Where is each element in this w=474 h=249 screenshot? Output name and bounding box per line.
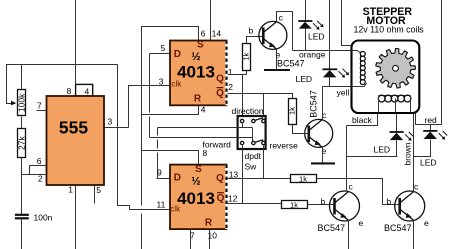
- wire: rail to 100k top: [21, 65, 23, 90]
- wire: FF2 pin 7 to bottom: [190, 230, 192, 249]
- wire: Q2 emitter to ground: [322, 148, 324, 163]
- wire: Q1 emitter to ground: [276, 50, 278, 70]
- LED 4: [414, 125, 448, 168]
- switch internal crossover: [242, 124, 244, 128]
- transistor Q4 BC547: [384, 182, 429, 234]
- svg-text:BC547: BC547: [318, 223, 346, 233]
- svg-text:S: S: [195, 164, 202, 175]
- wire: +V down to 555 pins 8/4: [75, 0, 77, 85]
- svg-text:27k: 27k: [16, 136, 26, 150]
- resistor 1k (to T4): [291, 175, 317, 183]
- transistor Q3 BC547: [318, 182, 364, 234]
- wire: Qbar drop to switch top-right: [263, 94, 265, 120]
- switch arm bottom: [255, 140, 263, 143]
- svg-text:yell: yell: [337, 88, 350, 98]
- svg-text:½: ½: [191, 176, 200, 188]
- wire: Q drop to switch top-left: [242, 75, 244, 120]
- IC 555: [47, 96, 105, 185]
- transistor Q2 BC547 (mid): [305, 90, 333, 156]
- svg-text:D: D: [174, 173, 181, 184]
- wire: 1k to T3 base: [308, 204, 334, 206]
- svg-text:black: black: [352, 115, 373, 125]
- wire: pin3 node down-left staircase to FF2 clk pin 11: [118, 65, 171, 210]
- svg-text:clk: clk: [172, 80, 183, 89]
- svg-text:b: b: [249, 26, 254, 36]
- pin 6 stub: [30, 166, 47, 175]
- svg-text:BC547: BC547: [309, 90, 319, 118]
- transistor Q1 BC547: [249, 13, 305, 69]
- svg-text:555: 555: [59, 118, 88, 138]
- wire: orange phase wire: [293, 50, 361, 52]
- wire: FF2 pin12 Qbar wire: [228, 203, 282, 205]
- resistor 100k: [18, 90, 26, 116]
- 555 notch box pins 8-4: [76, 84, 93, 96]
- svg-text:S: S: [197, 40, 204, 51]
- switch contacts bottom row: [240, 141, 243, 144]
- left coil: [360, 51, 365, 84]
- svg-text:D: D: [174, 49, 181, 60]
- wire: orange entry inside motor: [351, 51, 361, 54]
- svg-text:2: 2: [228, 82, 233, 92]
- ground (Q2): [311, 162, 335, 164]
- dpdt switch box: [238, 116, 266, 149]
- svg-text:5: 5: [161, 43, 166, 53]
- svg-text:14: 14: [212, 28, 222, 38]
- svg-text:Q: Q: [216, 88, 224, 99]
- svg-text:c: c: [279, 13, 284, 23]
- pin 5 stub: [94, 186, 96, 204]
- pin 2 stub: [22, 174, 47, 176]
- wire: red center tap wire: [416, 0, 442, 125]
- svg-text:1: 1: [228, 67, 233, 77]
- svg-text:brown: brown: [403, 142, 413, 165]
- wire: +12 to left coil tap: [342, 0, 352, 46]
- svg-text:e: e: [424, 218, 429, 228]
- svg-text:R: R: [205, 217, 213, 228]
- wire: FF2 pin 10 to bottom: [209, 230, 211, 249]
- svg-text:12: 12: [228, 193, 238, 203]
- wire: FF1 pin2 Qbar wire: [228, 94, 293, 99]
- svg-text:1k: 1k: [290, 201, 298, 210]
- svg-text:8: 8: [67, 86, 72, 96]
- svg-text:5: 5: [96, 185, 101, 195]
- svg-text:7: 7: [37, 101, 42, 111]
- LED 2: [296, 0, 350, 87]
- wire: FF1 pin 5 stub: [150, 53, 171, 55]
- switch arm top: [255, 118, 263, 121]
- wire: FF2 pin 8 S loop: [142, 151, 199, 165]
- wiper arrow into 100k: [11, 101, 16, 106]
- wire: yellow phase wire: [323, 83, 367, 86]
- svg-text:3: 3: [108, 117, 113, 127]
- wire: FF1 pin1 Q stub: [228, 74, 247, 76]
- capacitor 100n: [15, 214, 29, 216]
- svg-text:LED: LED: [308, 32, 325, 42]
- resistor 1k (T1 base): [246, 71, 248, 75]
- svg-text:4013: 4013: [177, 63, 215, 82]
- svg-text:½: ½: [191, 51, 200, 63]
- wire: cap to bottom edge: [21, 220, 23, 249]
- bottom coil: [378, 95, 411, 102]
- wire: Q1 collector up-right-down to orange: [277, 12, 293, 51]
- svg-text:BC547: BC547: [384, 223, 412, 233]
- wire: FF2 pin13 Q wire: [228, 178, 291, 180]
- wire: clock riser to FF1 clk: [129, 86, 171, 128]
- svg-text:1: 1: [68, 185, 73, 195]
- svg-text:100n: 100n: [34, 212, 53, 222]
- wire: brown riser Q4 collector to motor: [413, 114, 415, 192]
- svg-text:1k: 1k: [299, 174, 307, 183]
- wire: switch bottom-right drop to pin13 wire: [263, 146, 265, 179]
- svg-text:red: red: [425, 115, 438, 125]
- wire: switch bottom-left drop to pin12 wire: [242, 146, 244, 204]
- resistor 1k (to T3): [282, 201, 308, 209]
- IC 4013 FF1: [170, 40, 227, 106]
- wire: Q3 collector riser / black node: [346, 126, 348, 192]
- svg-text:direction: direction: [232, 106, 264, 116]
- svg-text:Sw: Sw: [245, 161, 258, 171]
- svg-text:1k: 1k: [242, 52, 251, 60]
- svg-text:13: 13: [229, 169, 239, 179]
- coil drop wires inside motor: [378, 96, 380, 113]
- svg-text:12v 110 ohm coils: 12v 110 ohm coils: [353, 24, 424, 34]
- svg-text:9: 9: [157, 168, 162, 178]
- resistor 1k (T2 base): [292, 94, 294, 99]
- svg-text:4: 4: [85, 86, 90, 96]
- LED 1: [298, 0, 324, 51]
- svg-text:R: R: [194, 93, 202, 104]
- svg-text:LED: LED: [374, 144, 391, 154]
- svg-text:orange: orange: [299, 50, 326, 60]
- svg-text:LED: LED: [296, 74, 313, 84]
- svg-text:6: 6: [201, 28, 206, 38]
- pin 1 wire to bottom: [75, 186, 77, 249]
- ground (Q1): [264, 69, 290, 71]
- svg-text:4013: 4013: [177, 189, 215, 208]
- svg-text:2: 2: [38, 174, 43, 184]
- wire: D1 descender (break at 114.4): [149, 54, 151, 113]
- wire: Q4 emitter to bottom: [413, 221, 415, 249]
- svg-text:b: b: [321, 197, 326, 207]
- svg-text:Q: Q: [216, 173, 224, 184]
- svg-text:clk: clk: [170, 204, 181, 213]
- svg-text:1k: 1k: [288, 107, 297, 115]
- wire: wire1 to switch top-left: [158, 127, 253, 129]
- wire: wire2 to switch bottom-mid: [150, 137, 253, 139]
- svg-text:100k: 100k: [16, 93, 26, 112]
- wire: 27k down to 100n cap, junction with pin2 stub: [21, 158, 23, 215]
- svg-text:6: 6: [37, 156, 42, 166]
- svg-text:e: e: [359, 218, 364, 228]
- svg-text:b: b: [387, 197, 392, 207]
- svg-text:4: 4: [201, 105, 206, 115]
- svg-text:forward: forward: [203, 140, 232, 150]
- wire: FF2 pin 9 stub: [157, 178, 171, 180]
- gear rotor: [376, 49, 416, 89]
- LED 3: [374, 114, 414, 157]
- svg-text:reverse: reverse: [270, 141, 299, 151]
- svg-text:3: 3: [159, 77, 164, 87]
- wire: Q2 collector riser to yell: [322, 87, 324, 120]
- resistor 27k: [18, 129, 26, 158]
- wire: 1k to T4 base: [317, 179, 401, 205]
- svg-text:10: 10: [208, 230, 218, 240]
- wire: Q3 emitter to bottom: [348, 221, 350, 249]
- svg-text:11: 11: [157, 200, 166, 210]
- svg-text:dpdt: dpdt: [245, 151, 262, 161]
- wire: yellow entry inside motor: [351, 83, 367, 86]
- wire: S1 loop pin 6: [142, 27, 199, 206]
- svg-text:Q: Q: [217, 193, 225, 204]
- wire: supply rail top-left: [7, 65, 118, 104]
- svg-text:Q: Q: [216, 74, 224, 85]
- pin 3 stub: [105, 127, 129, 129]
- stepper motor box: [352, 41, 420, 114]
- pin 7 stub: [37, 110, 47, 112]
- switch contacts top row: [240, 119, 243, 122]
- wire: S/R rail lower part (break at pin11 wires): [141, 214, 143, 249]
- wire: FF1 pin 4 reset loop: [142, 106, 199, 115]
- svg-text:BC547: BC547: [277, 59, 305, 69]
- wire: D2 descender (breaks at 137.6,150.3): [157, 128, 159, 136]
- wire: LED3 cathode rail to Q3 collector: [347, 156, 398, 158]
- wire: 100k to 27k: [21, 117, 23, 129]
- IC 4013 FF2: [170, 164, 227, 229]
- svg-text:LED: LED: [420, 158, 437, 168]
- wire: black wire from coil: [347, 114, 378, 126]
- wire: FF1 pin 14 from top: [210, 0, 212, 41]
